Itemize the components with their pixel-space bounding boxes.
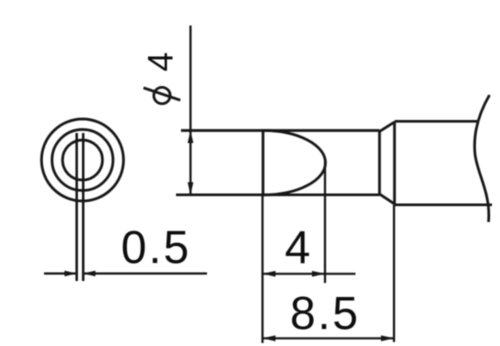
svg-text:0.5: 0.5 <box>121 221 191 273</box>
arrowhead 4 left (points left) <box>263 271 276 277</box>
front view middle circle <box>52 130 113 191</box>
diameter symbol slash <box>144 88 181 100</box>
break line S-curve <box>475 95 490 222</box>
shank end vertical line <box>378 131 381 195</box>
arrowhead 8.5 right (points right) <box>381 335 394 341</box>
dimension line 4 <box>263 273 356 275</box>
body top edge <box>395 120 480 123</box>
arrowhead phi4 top (points up) <box>188 131 194 144</box>
body left edge vertical line <box>393 122 396 205</box>
dimension line 0.5 right segment <box>85 272 208 274</box>
flare bottom slant <box>380 194 395 204</box>
extension line right (for 8.5 dim) <box>393 205 395 342</box>
dimension line 0.5 left segment <box>44 272 76 274</box>
svg-text:4: 4 <box>285 221 311 273</box>
svg-text:4: 4 <box>141 52 180 71</box>
flare top slant <box>380 122 395 132</box>
front view outer circle <box>42 119 124 201</box>
body bottom edge <box>395 203 493 206</box>
diameter symbol circle <box>154 87 170 103</box>
slot right line (extension for 0.5 dim) <box>82 133 85 281</box>
arrowhead 0.5 left (points right) <box>65 271 77 277</box>
side view bottom edge with left extension <box>176 193 380 196</box>
dimension line 8.5 <box>263 337 395 339</box>
slot left line (extension for 0.5 dim) <box>75 133 78 281</box>
arrowhead 4 right (points right) <box>312 271 325 277</box>
arrowhead phi4 bottom (points down) <box>188 182 194 195</box>
arrowhead 8.5 left (points left) <box>263 335 276 341</box>
tip face vertical line <box>262 129 265 196</box>
front view inner circle <box>63 140 103 180</box>
extension line left (for 4 and 8.5 dims) <box>261 196 263 343</box>
chisel D-curve (half ellipse) <box>264 131 326 195</box>
phi4 dimension vertical line <box>189 26 191 195</box>
svg-text:8.5: 8.5 <box>290 287 360 339</box>
side view top edge with left extension <box>181 129 380 132</box>
arrowhead 0.5 right (points left) <box>83 271 95 277</box>
extension line middle (for 4 dim) <box>324 160 326 283</box>
